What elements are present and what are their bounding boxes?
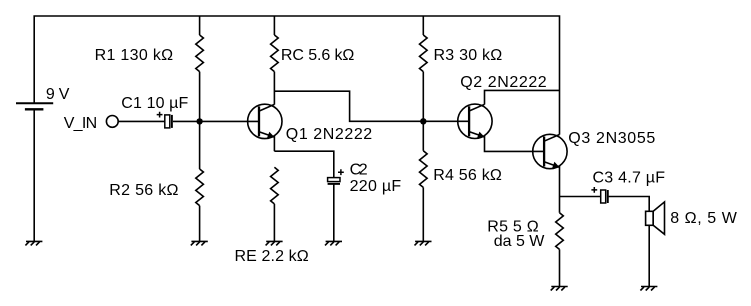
terminal V_IN [106, 116, 118, 128]
wire: emitter rail to C2 branch [274, 151, 333, 177]
ground (C2) [325, 241, 342, 245]
capacitor C2 [328, 169, 344, 184]
resistor R4 [419, 151, 427, 188]
ground (speaker) [640, 287, 657, 291]
svg-text:C2: C2 [350, 162, 368, 179]
battery B1 9V [16, 103, 53, 109]
wire: C2 to ground [333, 184, 335, 241]
svg-text:9 V: 9 V [46, 86, 70, 103]
svg-text:R1 130 kΩ: R1 130 kΩ [95, 47, 174, 64]
svg-text:Q1 2N2222: Q1 2N2222 [286, 126, 372, 143]
wire: battery negative to ground [33, 109, 35, 241]
resistor R1 [196, 35, 204, 72]
wire: node to Q2 base [423, 120, 469, 122]
wire: R3/R4 column [422, 16, 424, 241]
node: input/base junction dot [196, 118, 202, 124]
transistor Q1 2N2222 [248, 104, 282, 138]
svg-text:R2 56 kΩ: R2 56 kΩ [109, 182, 178, 199]
wire: R1/R2 column [199, 16, 201, 241]
wire: RC column and Q1 collector [273, 16, 275, 105]
svg-text:C1 10 µF: C1 10 µF [121, 95, 188, 112]
svg-text:R4 56 kΩ: R4 56 kΩ [433, 167, 502, 184]
svg-text:Q2 2N2222: Q2 2N2222 [460, 74, 547, 91]
wire: output node down through R5 to ground [559, 197, 561, 287]
resistor RE [271, 167, 279, 204]
svg-text:Q3 2N3055: Q3 2N3055 [568, 130, 655, 147]
wire: Q3 emitter to output node [559, 166, 561, 197]
wire: speaker to ground [648, 225, 650, 286]
svg-text:RC 5.6 kΩ: RC 5.6 kΩ [281, 47, 355, 64]
svg-text:220 µF: 220 µF [350, 178, 402, 195]
wire: Q1 emitter down to emitter rail [273, 136, 275, 151]
speaker LS1 [646, 202, 665, 234]
capacitor C1 [157, 112, 172, 128]
ground (R2) [191, 241, 208, 245]
node: Q2 base junction dot [420, 118, 426, 124]
wire: C1 to Q1 base [173, 120, 259, 122]
svg-text:da 5 W: da 5 W [494, 233, 545, 250]
resistor R2 [196, 169, 204, 206]
ground (battery) [25, 241, 42, 245]
capacitor C3 [591, 187, 607, 203]
wire: V_IN to C1 [118, 120, 165, 122]
svg-text:R3 30 kΩ: R3 30 kΩ [434, 47, 503, 64]
wire: Q2 emitter to Q3 base [485, 136, 545, 152]
wire: C3 to speaker [609, 197, 650, 212]
svg-text:RE 2.2 kΩ: RE 2.2 kΩ [235, 248, 309, 265]
wire: collector node step to Q2 base node [274, 91, 423, 121]
ground (RE) [266, 241, 283, 245]
resistor R3 [419, 35, 427, 72]
ground (R4) [415, 241, 432, 245]
transistor Q2 2N2222 [458, 104, 492, 138]
wire: top supply rail with left battery drop and right drop to Q3 collector [34, 16, 559, 135]
resistor RC [271, 35, 279, 72]
resistor R5 [556, 213, 564, 250]
svg-text:V_IN: V_IN [64, 115, 97, 132]
svg-text:C3 4.7 µF: C3 4.7 µF [593, 170, 666, 187]
wire: RE to ground [273, 204, 275, 242]
wire: output node to C3 [560, 196, 601, 198]
ground (R5) [551, 287, 568, 291]
svg-text:8 Ω, 5 W: 8 Ω, 5 W [670, 210, 737, 227]
wire: Q2 collector to supply drop [485, 90, 560, 104]
transistor Q3 2N3055 [533, 134, 567, 168]
